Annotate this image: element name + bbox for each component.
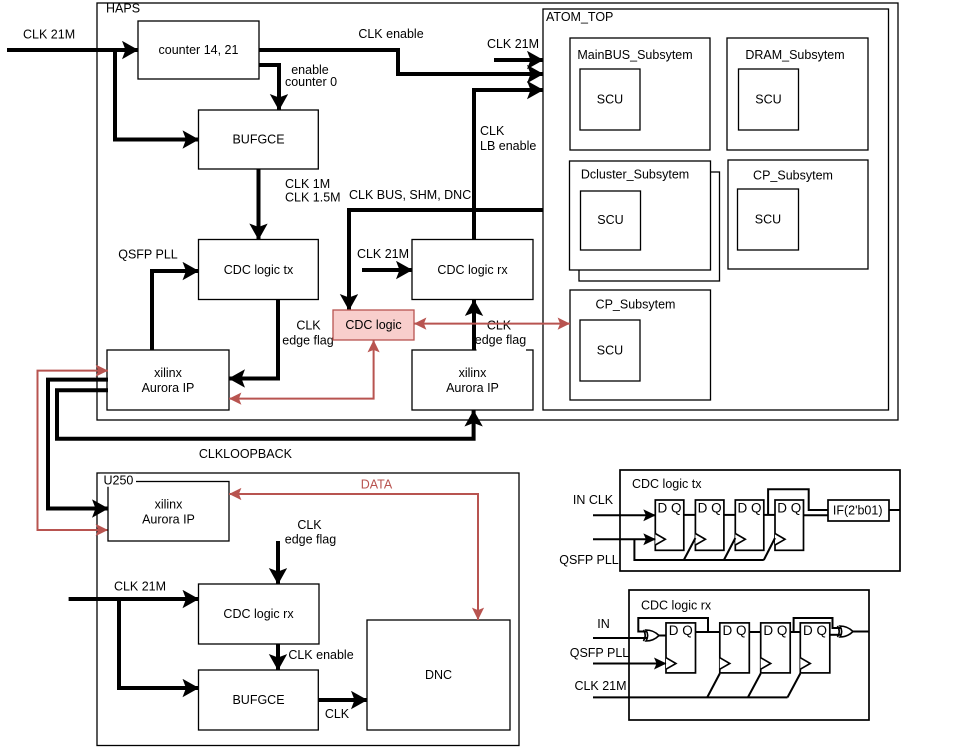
svg-text:CLK BUS, SHM, DNC: CLK BUS, SHM, DNC bbox=[349, 188, 471, 202]
wire IN CLK bbox=[573, 493, 655, 515]
wire rx IN bbox=[593, 617, 647, 638]
xilinx Aurora IP box (HAPS left) bbox=[107, 350, 229, 410]
ATOM_TOP container box bbox=[543, 9, 889, 410]
svg-text:edge flag: edge flag bbox=[282, 334, 333, 348]
svg-text:D Q: D Q bbox=[669, 623, 693, 638]
svg-text:xilinx: xilinx bbox=[459, 366, 488, 380]
svg-text:SCU: SCU bbox=[755, 93, 781, 107]
svg-text:CLK 21M: CLK 21M bbox=[114, 580, 166, 594]
rx flip-flop 1 bbox=[666, 623, 696, 673]
svg-text:CLK 1M: CLK 1M bbox=[285, 177, 330, 191]
svg-text:CLK 1.5M: CLK 1.5M bbox=[285, 191, 341, 205]
svg-text:CLKLOOPBACK: CLKLOOPBACK bbox=[199, 447, 293, 461]
svg-text:CLK 21M: CLK 21M bbox=[23, 28, 75, 42]
SCU box (CP lower) bbox=[580, 320, 640, 381]
U250 label bbox=[100, 473, 136, 487]
svg-text:xilinx: xilinx bbox=[155, 498, 184, 512]
wire tx Q2-D3 bbox=[724, 514, 735, 516]
svg-text:HAPS: HAPS bbox=[106, 2, 140, 16]
SCU box (MainBUS) bbox=[580, 69, 640, 130]
wire U250 CLK 21M branch to BUFGCE bbox=[119, 599, 199, 688]
CDC logic tx detail box bbox=[620, 470, 900, 571]
tx flip-flop 2 bbox=[695, 500, 724, 550]
svg-text:CP_Subsytem: CP_Subsytem bbox=[753, 168, 833, 182]
wire CLK 21M input arrow bbox=[7, 28, 138, 51]
red link CDC logic to CP_Subsytem bbox=[414, 318, 570, 330]
wire tx clock diagonal 2 bbox=[724, 538, 735, 560]
wire rx Q2-D3 bbox=[749, 631, 760, 633]
wire CLK 21M into CDC logic rx bbox=[357, 247, 412, 270]
svg-text:CDC logic rx: CDC logic rx bbox=[437, 263, 508, 277]
Dcluster shadow box bbox=[579, 172, 720, 281]
svg-text:CLK 21M: CLK 21M bbox=[357, 247, 409, 261]
wire U250 CLK 21M input bbox=[69, 580, 199, 600]
Dcluster_Subsytem box bbox=[570, 161, 711, 270]
svg-text:IF(2'b01): IF(2'b01) bbox=[833, 503, 883, 517]
svg-text:CLK: CLK bbox=[297, 518, 322, 532]
svg-text:BUFGCE: BUFGCE bbox=[232, 133, 284, 147]
red link DATA bbox=[229, 478, 484, 621]
svg-text:D Q: D Q bbox=[737, 501, 761, 516]
svg-text:CLK 21M: CLK 21M bbox=[487, 37, 539, 51]
wire rx Q3-D4 bbox=[790, 631, 800, 633]
svg-text:CLK enable: CLK enable bbox=[358, 27, 423, 41]
svg-text:CLK: CLK bbox=[487, 319, 512, 333]
svg-text:D Q: D Q bbox=[657, 501, 681, 516]
wire BUFGCE to CDC logic tx bbox=[259, 169, 341, 240]
CDC logic rx detail box bbox=[629, 590, 869, 720]
svg-text:CLK: CLK bbox=[325, 707, 350, 721]
counter 14, 21 box bbox=[138, 21, 259, 79]
wire rx CLK 21M bus bbox=[574, 679, 787, 697]
SCU box (DRAM) bbox=[739, 69, 799, 130]
rx flip-flop 4 bbox=[800, 623, 830, 673]
wire tx bypass bbox=[768, 489, 828, 515]
wire U250 BUFGCE to DNC CLK bbox=[318, 700, 367, 721]
wire xor2 output bbox=[853, 631, 870, 633]
wire CLK LB enable into ATOM_TOP bbox=[474, 90, 543, 240]
wire rx Q1-D2 bbox=[696, 631, 720, 633]
xor gate 2 bbox=[837, 626, 853, 637]
svg-text:MainBUS_Subsytem: MainBUS_Subsytem bbox=[577, 48, 692, 62]
CDC logic rx box (U250) bbox=[199, 584, 320, 644]
svg-text:D Q: D Q bbox=[777, 501, 801, 516]
SCU box (Dcluster) bbox=[581, 191, 641, 250]
wire rx feedback loop 2 bbox=[794, 618, 841, 632]
svg-text:Aurora IP: Aurora IP bbox=[142, 513, 195, 527]
wire CDC tx CLK edge flag to aurora left bbox=[229, 300, 334, 379]
svg-text:CLK: CLK bbox=[480, 124, 505, 138]
wire tx clock bus bbox=[634, 539, 763, 560]
svg-text:counter 14, 21: counter 14, 21 bbox=[159, 43, 239, 57]
xilinx Aurora IP box (HAPS right) bbox=[412, 350, 533, 410]
svg-text:DNC: DNC bbox=[425, 668, 452, 682]
svg-text:SCU: SCU bbox=[597, 93, 623, 107]
svg-text:CLK enable: CLK enable bbox=[288, 648, 353, 662]
svg-text:U250: U250 bbox=[104, 473, 134, 487]
xilinx Aurora IP box (U250) bbox=[108, 482, 229, 542]
svg-text:edge flag: edge flag bbox=[285, 533, 336, 547]
svg-text:ATOM_TOP: ATOM_TOP bbox=[546, 10, 613, 24]
svg-text:CDC logic tx: CDC logic tx bbox=[632, 477, 702, 491]
wire QSFP PLL tx bbox=[559, 539, 655, 567]
red link aurora left to U250 aurora bbox=[38, 365, 109, 537]
svg-text:SCU: SCU bbox=[755, 213, 781, 227]
svg-text:QSFP PLL: QSFP PLL bbox=[559, 553, 619, 567]
tx flip-flop 3 bbox=[735, 500, 764, 550]
wire rx Q4 to xor2 bbox=[830, 634, 841, 636]
svg-text:D Q: D Q bbox=[763, 623, 787, 638]
MainBUS_Subsytem box bbox=[570, 38, 710, 150]
wire tx clock diagonal 1 bbox=[684, 538, 696, 560]
svg-text:QSFP PLL: QSFP PLL bbox=[118, 248, 178, 262]
svg-text:CLK 21M: CLK 21M bbox=[574, 679, 626, 693]
svg-text:DRAM_Subsytem: DRAM_Subsytem bbox=[745, 48, 844, 62]
wire aurora left to U250 aurora bbox=[48, 380, 108, 509]
CDC logic rx box (HAPS) bbox=[412, 240, 533, 300]
wire rx clock diagonal 3 bbox=[788, 674, 801, 698]
wire CLK enable counter to ATOM_TOP bbox=[259, 27, 543, 74]
CP_Subsytem upper box bbox=[728, 160, 868, 269]
wire tx Q1-D2 bbox=[684, 514, 696, 516]
wire xor1 to FF1 bbox=[659, 635, 667, 637]
svg-text:SCU: SCU bbox=[597, 344, 623, 358]
svg-text:IN: IN bbox=[597, 617, 610, 631]
wire enable counter 0 bbox=[259, 63, 337, 110]
svg-text:Aurora IP: Aurora IP bbox=[142, 381, 195, 395]
wire IF output bbox=[889, 509, 900, 511]
CDC logic pink box bbox=[333, 310, 414, 340]
wire tx Q3-D4 bbox=[764, 514, 775, 516]
wire CLK BUS SHM DNC bbox=[349, 188, 543, 310]
wire tx Q4 out bbox=[804, 514, 829, 516]
svg-text:IN CLK: IN CLK bbox=[573, 493, 614, 507]
HAPS container box bbox=[97, 2, 898, 421]
svg-text:LB enable: LB enable bbox=[480, 139, 536, 153]
svg-text:SCU: SCU bbox=[597, 213, 623, 227]
svg-text:counter 0: counter 0 bbox=[285, 75, 337, 89]
IF(2'b01) box bbox=[828, 500, 889, 521]
svg-text:QSFP PLL: QSFP PLL bbox=[570, 646, 630, 660]
svg-text:edge flag: edge flag bbox=[475, 333, 526, 347]
wire tx clock diagonal 3 bbox=[764, 538, 775, 560]
rx flip-flop 2 bbox=[720, 623, 750, 673]
CP_Subsytem lower box bbox=[570, 290, 711, 400]
svg-text:CDC logic rx: CDC logic rx bbox=[641, 598, 712, 612]
BUFGCE box (HAPS) bbox=[199, 110, 319, 169]
wire QSFP PLL into CDC logic tx bbox=[118, 248, 198, 351]
svg-text:D Q: D Q bbox=[803, 623, 827, 638]
wire U250 aurora to CDC rx bbox=[278, 518, 336, 584]
wire rx clock diagonal 2 bbox=[748, 674, 761, 698]
DNC box bbox=[367, 620, 510, 730]
xor gate 1 bbox=[643, 630, 659, 641]
svg-text:CLK: CLK bbox=[296, 319, 321, 333]
wire rx feedback loop 1 bbox=[638, 618, 708, 632]
svg-text:Aurora IP: Aurora IP bbox=[446, 381, 499, 395]
svg-text:D Q: D Q bbox=[698, 501, 722, 516]
svg-text:D Q: D Q bbox=[722, 623, 746, 638]
wire CLK 21M short arrow into ATOM_TOP bbox=[487, 37, 543, 60]
svg-text:xilinx: xilinx bbox=[154, 366, 183, 380]
SCU box (CP upper) bbox=[738, 189, 799, 250]
U250 container box bbox=[97, 473, 519, 746]
wire CLKLOOPBACK bbox=[57, 390, 474, 461]
wire aurora right CLK edge flag to CDC rx bbox=[474, 300, 526, 351]
svg-text:CDC logic: CDC logic bbox=[345, 318, 401, 332]
svg-text:CDC logic rx: CDC logic rx bbox=[223, 607, 294, 621]
wire rx clock diagonal 1 bbox=[707, 674, 720, 698]
svg-text:BUFGCE: BUFGCE bbox=[232, 693, 284, 707]
BUFGCE box (U250) bbox=[199, 670, 319, 730]
rx flip-flop 3 bbox=[761, 623, 791, 673]
svg-text:CDC logic tx: CDC logic tx bbox=[224, 263, 294, 277]
svg-text:Dcluster_Subsytem: Dcluster_Subsytem bbox=[581, 168, 689, 182]
wire CLK 21M branch to BUFGCE bbox=[115, 50, 199, 140]
tx flip-flop 1 bbox=[655, 500, 684, 550]
svg-text:DATA: DATA bbox=[361, 478, 393, 492]
svg-text:CP_Subsytem: CP_Subsytem bbox=[596, 298, 676, 312]
DRAM_Subsytem box bbox=[727, 38, 868, 150]
red link aurora left to CDC logic bbox=[229, 340, 380, 405]
wire rx QSFP PLL bbox=[570, 646, 666, 664]
tx flip-flop 4 bbox=[775, 500, 804, 550]
CDC logic tx box (HAPS) bbox=[199, 240, 319, 300]
wire U250 CDC rx to BUFGCE CLK enable bbox=[278, 644, 354, 670]
